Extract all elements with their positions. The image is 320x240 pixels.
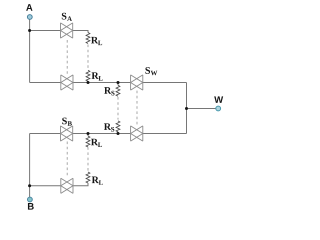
label SW bbox=[145, 67, 157, 75]
resistor RL1 bbox=[86, 33, 90, 44]
wire row2 middle segment bbox=[73, 82, 131, 84]
wire row1 left segment bbox=[30, 30, 61, 32]
label A bbox=[26, 4, 32, 11]
dashed gang line between SA and lower A switch bbox=[66, 40, 68, 74]
wire row1 right segment into RL column bbox=[73, 31, 88, 33]
label SA bbox=[62, 13, 72, 21]
switch SW upper bbox=[131, 75, 143, 90]
label RS2 bbox=[104, 123, 114, 131]
switch SW lower bbox=[131, 126, 143, 141]
junction node W bus bbox=[185, 107, 188, 110]
terminal B bbox=[28, 197, 33, 202]
wire row2 right segment to right bus bbox=[143, 82, 187, 84]
wire row3 left segment bbox=[30, 133, 61, 135]
label W bbox=[214, 96, 223, 103]
label RL3 bbox=[91, 139, 102, 147]
junction node row1/A bbox=[28, 29, 31, 32]
switch SA bbox=[61, 23, 73, 38]
wire right vertical bus bbox=[186, 83, 188, 134]
junction node RS row3 bbox=[117, 132, 120, 135]
wire RS column stub above row3 bbox=[117, 132, 119, 134]
switch SB bbox=[61, 126, 73, 141]
resistor RS2 bbox=[116, 121, 120, 132]
label RL1 bbox=[91, 37, 102, 45]
label B bbox=[28, 203, 34, 210]
junction node RL row2 bbox=[87, 81, 90, 84]
resistor RL2 bbox=[86, 70, 90, 81]
wire row3 right segment to right bus bbox=[143, 133, 187, 135]
wire row3 middle segment bbox=[73, 133, 131, 135]
wire RL column stub below row3 bbox=[87, 134, 89, 137]
dashed ladder continuation RL column section B bbox=[87, 147, 89, 171]
junction node row4/B bbox=[28, 184, 31, 187]
wire row2 left segment bbox=[30, 82, 61, 84]
junction node RS row2 bbox=[117, 81, 120, 84]
terminal W bbox=[216, 106, 221, 111]
terminal A bbox=[27, 15, 32, 20]
resistor RL3 bbox=[86, 136, 90, 147]
dashed ladder continuation RS column bbox=[117, 97, 119, 120]
resistor RL4 bbox=[86, 172, 90, 183]
wire RL column stub above row2 bbox=[87, 81, 89, 82]
wire RS column stub below row2 bbox=[117, 83, 119, 86]
dashed gang line between SW switches bbox=[136, 91, 138, 126]
label RS1 bbox=[104, 87, 114, 95]
switch B lower bbox=[61, 178, 73, 193]
junction node RL row3 bbox=[87, 132, 90, 135]
dashed ladder continuation RL column section A bbox=[87, 45, 89, 70]
dashed gang line between SB and lower B switch bbox=[66, 142, 68, 178]
wire row4 left segment bbox=[30, 185, 61, 187]
wire A drop from terminal A down to row2 bbox=[29, 19, 31, 82]
label SB bbox=[62, 118, 72, 126]
label RL4 bbox=[92, 177, 103, 185]
wire W stub bbox=[187, 108, 216, 110]
wire B vertical from row3 down to terminal B bbox=[29, 134, 31, 198]
resistor RS1 bbox=[116, 85, 120, 96]
switch A lower bbox=[61, 75, 73, 90]
wire row4 right segment up into RL column bbox=[73, 183, 88, 186]
label RL2 bbox=[92, 72, 103, 80]
